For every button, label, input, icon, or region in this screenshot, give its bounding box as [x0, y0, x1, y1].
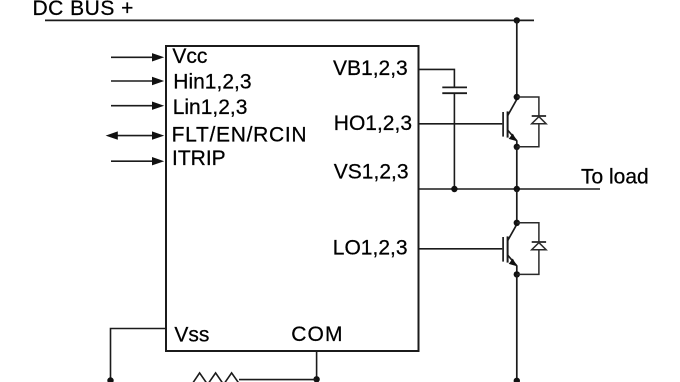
transistor Q2 low-side IGBT: [503, 223, 517, 275]
svg-text:DC BUS +: DC BUS +: [33, 0, 134, 20]
svg-text:VS1,2,3: VS1,2,3: [334, 161, 409, 184]
wire: Hin input arrow: [111, 77, 164, 85]
svg-text:Vss: Vss: [174, 324, 209, 347]
wire: Vcc input arrow: [111, 53, 164, 61]
svg-text:VB1,2,3: VB1,2,3: [333, 57, 408, 80]
node: Q1 collector dot: [514, 94, 520, 100]
diode D1 freewheeling: [517, 97, 546, 147]
IC U1 gate-driver box: [166, 46, 419, 351]
wire: HO pin to Q1 gate: [419, 123, 503, 125]
wire: ITRIP input arrow: [111, 157, 164, 165]
wire: DC bus vertical drop to Q1 collector: [516, 20, 518, 97]
wire: capacitor bottom lead to VS rail: [453, 94, 455, 190]
svg-text:To load: To load: [581, 166, 649, 189]
wire: VB pin to bootstrap capacitor: [419, 69, 455, 87]
wire: phase bus VS rail to Q2 collector: [516, 189, 518, 223]
capacitor C1 bootstrap: [442, 87, 467, 93]
wire: FLT/EN/RCIN bidirectional arrow: [106, 131, 165, 139]
svg-text:Vcc: Vcc: [172, 45, 207, 68]
node: VS-phase junction dot: [514, 186, 520, 192]
node: VS-capacitor junction dot: [451, 186, 457, 192]
svg-text:Hin1,2,3: Hin1,2,3: [173, 70, 251, 93]
svg-text:ITRIP: ITRIP: [172, 147, 226, 170]
wire: LO pin to Q2 gate: [419, 248, 503, 250]
node: Q2 emitter dot: [514, 271, 520, 277]
wire: COM pin down leg: [316, 352, 318, 379]
node: Vss leg bottom dot: [107, 377, 113, 382]
wire: Vss pin down-left leg: [111, 329, 167, 381]
wire: Q2 emitter down to bottom rail: [516, 274, 518, 382]
node: Q2 collector dot: [514, 220, 520, 226]
svg-text:HO1,2,3: HO1,2,3: [334, 112, 412, 135]
wire: phase bus Q1 emitter to VS rail: [516, 147, 518, 189]
wire: Lin input arrow: [111, 102, 164, 110]
svg-text:LO1,2,3: LO1,2,3: [333, 237, 408, 260]
node: bottom rail junction dot: [514, 378, 520, 382]
wire: DC bus horizontal rail: [45, 19, 534, 21]
resistor R1 sense zigzag: [192, 373, 240, 382]
svg-text:COM: COM: [291, 323, 343, 346]
node: Q1 emitter dot: [514, 144, 520, 150]
wire: VS rail to load: [419, 188, 601, 190]
transistor Q1 high-side IGBT: [503, 97, 517, 147]
wire: resistor to COM leg: [239, 379, 317, 381]
svg-text:FLT/EN/RCIN: FLT/EN/RCIN: [172, 123, 308, 146]
diode D2 freewheeling: [517, 223, 546, 275]
node: COM leg bottom dot: [313, 376, 319, 382]
svg-text:Lin1,2,3: Lin1,2,3: [173, 96, 248, 119]
node: DC bus junction dot: [514, 17, 520, 23]
